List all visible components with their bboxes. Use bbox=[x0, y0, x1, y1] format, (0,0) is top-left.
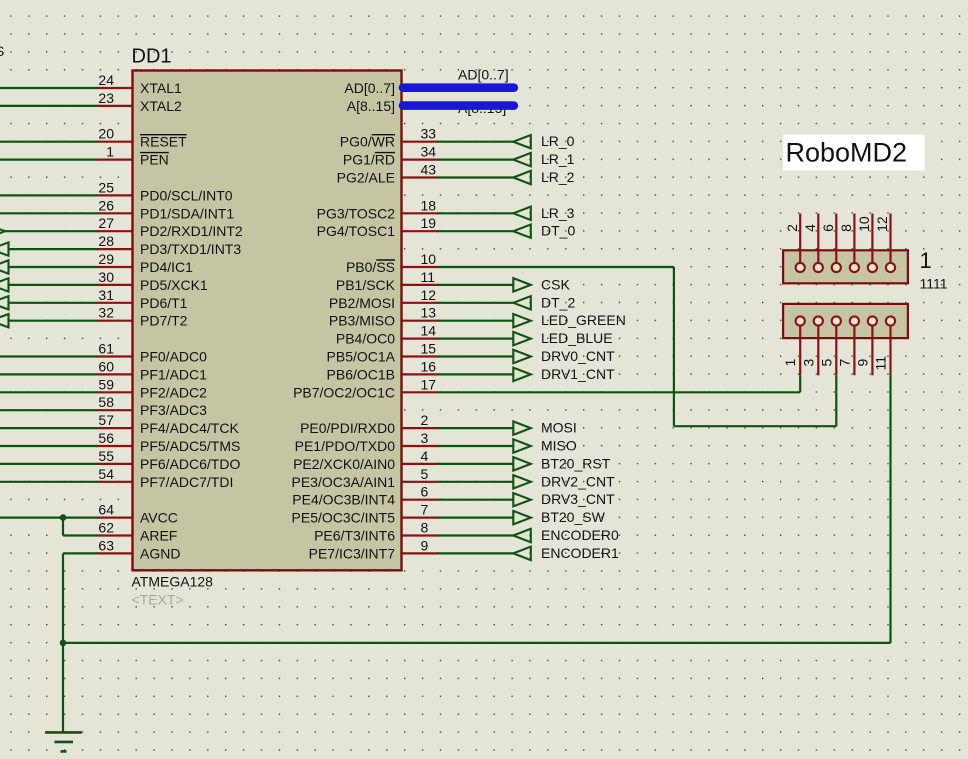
svg-text:8: 8 bbox=[838, 224, 854, 232]
svg-text:61: 61 bbox=[98, 341, 114, 357]
svg-text:9: 9 bbox=[421, 537, 429, 553]
svg-text:PB3/MISO: PB3/MISO bbox=[329, 313, 395, 329]
svg-text:PE1/PDO/TXD0: PE1/PDO/TXD0 bbox=[295, 438, 396, 454]
svg-text:PE5/OC3C/INT5: PE5/OC3C/INT5 bbox=[292, 510, 396, 526]
svg-text:XTAL1: XTAL1 bbox=[140, 80, 182, 96]
svg-text:PD4/IC1: PD4/IC1 bbox=[140, 259, 193, 275]
svg-text:20: 20 bbox=[98, 126, 114, 142]
svg-text:5: 5 bbox=[421, 466, 429, 482]
svg-text:26: 26 bbox=[98, 197, 114, 213]
svg-text:31: 31 bbox=[98, 287, 114, 303]
svg-text:PE2/XCK0/AIN0: PE2/XCK0/AIN0 bbox=[293, 456, 395, 472]
svg-text:PD5/XCK1: PD5/XCK1 bbox=[140, 277, 208, 293]
svg-text:PD2/RXD1/INT2: PD2/RXD1/INT2 bbox=[140, 223, 243, 239]
svg-text:23: 23 bbox=[98, 90, 114, 106]
svg-text:PD0/SCL/INT0: PD0/SCL/INT0 bbox=[140, 187, 233, 203]
svg-text:16: 16 bbox=[421, 358, 437, 374]
svg-text:62: 62 bbox=[98, 520, 114, 536]
svg-text:RESET: RESET bbox=[140, 134, 187, 150]
svg-text:25: 25 bbox=[98, 179, 114, 195]
svg-text:8: 8 bbox=[421, 520, 429, 536]
svg-text:LED_BLUE: LED_BLUE bbox=[541, 330, 613, 346]
svg-text:CSK: CSK bbox=[541, 276, 570, 292]
svg-text:DT_0: DT_0 bbox=[541, 223, 575, 239]
svg-text:PB1/SCK: PB1/SCK bbox=[336, 277, 396, 293]
svg-text:1: 1 bbox=[782, 359, 798, 367]
svg-text:1111: 1111 bbox=[920, 276, 948, 292]
svg-text:63: 63 bbox=[98, 537, 114, 553]
svg-text:64: 64 bbox=[98, 502, 114, 518]
svg-text:DRV2_CNT: DRV2_CNT bbox=[541, 473, 615, 489]
svg-text:AGND: AGND bbox=[140, 545, 180, 561]
svg-text:XTAL2: XTAL2 bbox=[140, 98, 182, 114]
svg-text:5: 5 bbox=[818, 359, 834, 367]
svg-text:RoboMD2: RoboMD2 bbox=[786, 137, 908, 167]
svg-text:PEN: PEN bbox=[140, 152, 169, 168]
svg-text:10: 10 bbox=[856, 216, 872, 232]
svg-text:15: 15 bbox=[421, 341, 437, 357]
svg-text:60: 60 bbox=[98, 358, 114, 374]
svg-text:LED_GREEN: LED_GREEN bbox=[541, 312, 626, 328]
svg-text:LR_3: LR_3 bbox=[541, 205, 575, 221]
svg-text:2: 2 bbox=[784, 224, 800, 232]
svg-text:PE7/IC3/INT7: PE7/IC3/INT7 bbox=[309, 545, 396, 561]
svg-text:LR_0: LR_0 bbox=[541, 133, 575, 149]
svg-text:14: 14 bbox=[421, 323, 437, 339]
svg-text:12: 12 bbox=[874, 216, 890, 232]
svg-text:1: 1 bbox=[920, 248, 932, 273]
svg-text:ATMEGA128: ATMEGA128 bbox=[132, 574, 214, 590]
svg-text:PF1/ADC1: PF1/ADC1 bbox=[140, 366, 207, 382]
svg-text:59: 59 bbox=[98, 376, 114, 392]
svg-text:54: 54 bbox=[98, 466, 114, 482]
svg-text:DD1: DD1 bbox=[132, 45, 172, 67]
svg-text:<TEXT>: <TEXT> bbox=[132, 591, 184, 607]
svg-text:DT_2: DT_2 bbox=[541, 294, 575, 310]
svg-text:PF7/ADC7/TDI: PF7/ADC7/TDI bbox=[140, 474, 233, 490]
svg-text:PG1/RD: PG1/RD bbox=[343, 152, 395, 168]
svg-text:PE0/PDI/RXD0: PE0/PDI/RXD0 bbox=[300, 420, 395, 436]
svg-text:MISO: MISO bbox=[541, 438, 577, 454]
svg-text:2: 2 bbox=[421, 412, 429, 428]
svg-text:PG0/WR: PG0/WR bbox=[340, 134, 395, 150]
svg-text:11: 11 bbox=[421, 269, 436, 285]
svg-text:PB0/SS: PB0/SS bbox=[346, 259, 395, 275]
svg-text:19: 19 bbox=[421, 215, 437, 231]
svg-text:AREF: AREF bbox=[140, 528, 177, 544]
svg-text:18: 18 bbox=[421, 197, 437, 213]
svg-text:30: 30 bbox=[98, 269, 114, 285]
svg-text:3: 3 bbox=[421, 430, 429, 446]
svg-text:PG4/TOSC1: PG4/TOSC1 bbox=[317, 223, 396, 239]
svg-text:55: 55 bbox=[98, 448, 114, 464]
svg-text:32: 32 bbox=[98, 305, 114, 321]
svg-text:33: 33 bbox=[421, 126, 437, 142]
svg-text:AVCC: AVCC bbox=[140, 510, 178, 526]
svg-text:BT20_SW: BT20_SW bbox=[541, 509, 606, 525]
svg-text:PE4/OC3B/INT4: PE4/OC3B/INT4 bbox=[292, 492, 395, 508]
svg-text:ENCODER0: ENCODER0 bbox=[541, 527, 619, 543]
svg-text:A[8..15]: A[8..15] bbox=[347, 98, 395, 114]
svg-text:11: 11 bbox=[873, 356, 889, 371]
svg-text:PF4/ADC4/TCK: PF4/ADC4/TCK bbox=[140, 420, 239, 436]
svg-text:29: 29 bbox=[98, 251, 114, 267]
svg-text:3: 3 bbox=[800, 359, 816, 367]
svg-text:56: 56 bbox=[98, 430, 114, 446]
svg-text:AD[0..7]: AD[0..7] bbox=[458, 67, 509, 83]
svg-text:PF6/ADC6/TDO: PF6/ADC6/TDO bbox=[140, 456, 240, 472]
svg-text:PB7/OC2/OC1C: PB7/OC2/OC1C bbox=[293, 384, 395, 400]
svg-text:PE3/OC3A/AIN1: PE3/OC3A/AIN1 bbox=[292, 474, 396, 490]
svg-text:PB5/OC1A: PB5/OC1A bbox=[327, 349, 396, 365]
svg-text:57: 57 bbox=[98, 412, 114, 428]
svg-text:BT20_RST: BT20_RST bbox=[541, 455, 611, 471]
svg-text:4: 4 bbox=[802, 224, 818, 232]
svg-text:PG2/ALE: PG2/ALE bbox=[337, 170, 395, 186]
svg-text:PD6/T1: PD6/T1 bbox=[140, 295, 188, 311]
svg-text:34: 34 bbox=[421, 144, 437, 160]
svg-text:43: 43 bbox=[421, 162, 437, 178]
svg-text:PB4/OC0: PB4/OC0 bbox=[336, 331, 395, 347]
svg-text:LR_1: LR_1 bbox=[541, 151, 575, 167]
svg-text:7: 7 bbox=[421, 502, 429, 518]
svg-text:S: S bbox=[0, 43, 4, 59]
svg-text:10: 10 bbox=[421, 251, 437, 267]
svg-text:ENCODER1: ENCODER1 bbox=[541, 545, 619, 561]
svg-text:PG3/TOSC2: PG3/TOSC2 bbox=[317, 205, 396, 221]
svg-text:58: 58 bbox=[98, 394, 114, 410]
svg-text:27: 27 bbox=[98, 215, 114, 231]
svg-text:DRV0_CNT: DRV0_CNT bbox=[541, 348, 615, 364]
svg-text:PF0/ADC0: PF0/ADC0 bbox=[140, 349, 207, 365]
svg-text:6: 6 bbox=[820, 224, 836, 232]
svg-text:PE6/T3/INT6: PE6/T3/INT6 bbox=[314, 528, 395, 544]
svg-text:9: 9 bbox=[854, 359, 870, 367]
svg-text:PF5/ADC5/TMS: PF5/ADC5/TMS bbox=[140, 438, 240, 454]
svg-text:4: 4 bbox=[421, 448, 429, 464]
svg-text:PB6/OC1B: PB6/OC1B bbox=[327, 366, 395, 382]
svg-text:6: 6 bbox=[421, 484, 429, 500]
svg-text:MOSI: MOSI bbox=[541, 420, 577, 436]
svg-text:1: 1 bbox=[106, 144, 114, 160]
svg-text:PD7/T2: PD7/T2 bbox=[140, 313, 188, 329]
svg-text:PD1/SDA/INT1: PD1/SDA/INT1 bbox=[140, 205, 234, 221]
svg-text:13: 13 bbox=[421, 305, 437, 321]
svg-text:12: 12 bbox=[421, 287, 437, 303]
svg-text:17: 17 bbox=[421, 376, 437, 392]
svg-text:PF2/ADC2: PF2/ADC2 bbox=[140, 384, 207, 400]
svg-text:PF3/ADC3: PF3/ADC3 bbox=[140, 402, 207, 418]
svg-text:PD3/TXD1/INT3: PD3/TXD1/INT3 bbox=[140, 241, 241, 257]
svg-text:DRV1_CNT: DRV1_CNT bbox=[541, 366, 615, 382]
svg-text:PB2/MOSI: PB2/MOSI bbox=[329, 295, 395, 311]
svg-text:DRV3_CNT: DRV3_CNT bbox=[541, 491, 615, 507]
svg-text:LR_2: LR_2 bbox=[541, 169, 575, 185]
svg-text:24: 24 bbox=[98, 72, 114, 88]
svg-text:AD[0..7]: AD[0..7] bbox=[344, 80, 395, 96]
svg-text:7: 7 bbox=[836, 359, 852, 367]
svg-text:28: 28 bbox=[98, 233, 114, 249]
